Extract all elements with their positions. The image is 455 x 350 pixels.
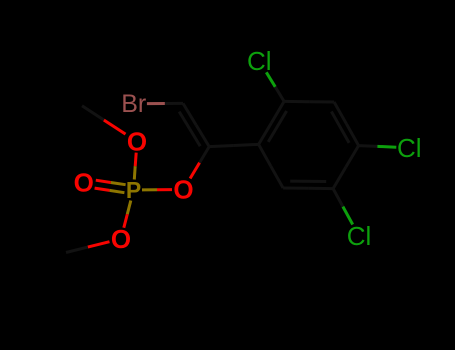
double bond C1=C2 line 2 [179,112,200,147]
bond ring-Cl (4-chloro) [359,146,397,148]
svg-text:P: P [126,177,141,203]
svg-text:O: O [111,224,131,254]
bond O-C1 (ester to vinyl carbon) [190,147,209,179]
svg-text:O: O [74,167,94,197]
svg-text:Cl: Cl [347,221,372,251]
ring inner double line C3'=C4' [331,112,349,143]
ring inner double line C1'=C2' [268,111,286,142]
bond P-O (upper methoxy) [134,153,136,180]
bond Br-C2 [147,102,183,105]
bond ring-Cl (5-chloro) [333,189,353,225]
svg-text:Cl: Cl [397,133,422,163]
bond P-O (lower methoxy) [124,201,131,228]
svg-text:Br: Br [121,90,146,118]
svg-text:O: O [127,127,147,157]
bond O-CH3 (upper methyl) [82,106,126,134]
bond C1-ring ipso [209,144,258,146]
ring inner double line C5'=C6' [290,180,326,183]
ring bond C5'-C6' [283,187,333,191]
double bond C1=C2 line 1 [183,103,209,146]
svg-text:O: O [173,175,193,205]
ring bond C6'-C1' [259,144,284,188]
ring bond C3'-C4' [334,102,359,146]
bond P-O (vinyl ester) [142,188,172,191]
bond O-CH3 (lower methyl) [66,242,110,253]
double bond P=O line 1 [95,188,125,193]
double bond P=O line 2 [96,180,126,185]
ring bond C1'-C2' [259,101,285,144]
ring bond C4'-C5' [333,146,359,189]
svg-text:Cl: Cl [247,46,272,76]
bond ring-Cl (2-chloro) [266,72,284,101]
ring bond C2'-C3' [284,100,334,104]
